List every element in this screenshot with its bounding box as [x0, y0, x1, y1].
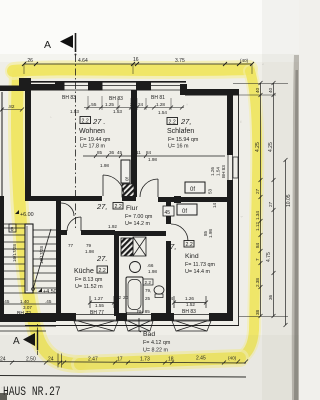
highlighter right stroke [237, 71, 257, 359]
svg-text:1.98: 1.98 [85, 249, 94, 254]
right wall window labels (rotated) [203, 165, 226, 238]
svg-text:Kind: Kind [185, 253, 199, 260]
sheet edge line bottom [0, 376, 246, 378]
svg-text:1.25: 1.25 [105, 102, 114, 107]
bottom window Bad BH85 [125, 315, 153, 332]
svg-text:BH 83: BH 83 [62, 95, 76, 101]
svg-text:1.34: 1.34 [255, 211, 260, 220]
bathtub [126, 277, 143, 313]
right dim chain 1 [259, 81, 263, 318]
svg-text:38: 38 [255, 309, 260, 315]
svg-text:0f: 0f [190, 187, 195, 193]
Bad/Kind wall lower [166, 241, 171, 316]
bottom dimension line [0, 354, 248, 368]
svg-text:36: 36 [109, 150, 115, 155]
stair direction arrow [33, 229, 51, 289]
svg-text:Schlafen: Schlafen [167, 128, 194, 135]
svg-text:1.27: 1.27 [94, 296, 103, 301]
svg-text:16/17/28: 16/17/28 [39, 246, 44, 264]
west wall Kueche/Flur [56, 196, 61, 316]
svg-text:.26: .26 [26, 58, 33, 64]
svg-text:1.26: 1.26 [185, 296, 194, 301]
bottom window Kueche BH77 [74, 315, 118, 332]
box 45 [163, 206, 174, 216]
svg-text:16: 16 [133, 57, 139, 63]
stair dims [2, 303, 57, 305]
svg-text:1.53: 1.53 [113, 109, 122, 114]
svg-text:0f: 0f [182, 209, 187, 215]
Schlafen bottom wall [158, 197, 227, 202]
section line A (dash-dot) [75, 55, 77, 230]
top wall face line [31, 81, 186, 83]
svg-text:1.54: 1.54 [216, 167, 221, 176]
stair handrail [25, 224, 33, 293]
door Wohnen arc [103, 175, 124, 196]
chimney hatched block Wohnen SE [122, 184, 134, 197]
svg-text:U= 17.8 m: U= 17.8 m [80, 144, 106, 150]
svg-text:Küche: Küche [74, 268, 94, 275]
elevation +6.00 [15, 210, 34, 218]
radiator Of Schlafen [185, 182, 205, 193]
svg-text:U= 16 m: U= 16 m [168, 144, 189, 150]
window W2 BH83 [102, 86, 136, 91]
Kueche/Bad wall [114, 231, 119, 316]
svg-text:2.2: 2.2 [145, 280, 152, 285]
highlighter left stroke [17, 74, 80, 364]
svg-text:1.98: 1.98 [100, 163, 109, 168]
svg-text:53: 53 [208, 188, 213, 194]
bathroom sink [130, 262, 141, 273]
right exterior wall [227, 90, 239, 325]
Flur-Kueche wall [61, 230, 67, 235]
svg-text:.45: .45 [45, 299, 52, 304]
right dim connector lines [233, 84, 288, 317]
svg-text:+4.50: +4.50 [43, 289, 57, 295]
svg-text:4.64: 4.64 [78, 58, 88, 64]
svg-text:1.12: 1.12 [255, 222, 260, 231]
room label Kind [165, 241, 216, 276]
box 6 label [9, 224, 16, 232]
window W3 BH81 [151, 86, 180, 91]
room label Wohnen [79, 117, 111, 150]
top dimension line [22, 62, 254, 74]
stair steps left flight [3, 228, 25, 293]
top exterior wall [0, 78, 239, 96]
Bad top wall [115, 231, 166, 236]
WC [154, 286, 164, 294]
radiator Of Kind [177, 204, 197, 215]
bottom window Kind BH83 [172, 315, 211, 332]
svg-text:U= 14.2 m: U= 14.2 m [125, 221, 151, 227]
window W1 BH83 [64, 86, 88, 91]
bathroom shaft X box [133, 237, 146, 256]
svg-text:27,: 27, [165, 242, 176, 251]
right dim chain 3 [284, 158, 288, 327]
svg-text:79,: 79, [145, 288, 151, 293]
svg-text:F= 7.00 qm: F= 7.00 qm [125, 214, 153, 220]
svg-text:.45: .45 [3, 299, 10, 304]
svg-text:(40): (40) [240, 58, 249, 63]
door Schlafen arc [140, 179, 158, 197]
svg-text:2.2: 2.2 [82, 119, 89, 125]
svg-text:1.26: 1.26 [210, 167, 215, 176]
svg-text:2.2: 2.2 [99, 268, 106, 274]
room label Schlafen [167, 117, 199, 150]
svg-text:40: 40 [255, 87, 260, 93]
bottom window dims [90, 295, 196, 316]
svg-text:27,: 27, [96, 202, 107, 211]
stair step labels [12, 244, 44, 264]
regional gray washes [262, 0, 299, 400]
door Kueche arc [67, 217, 81, 231]
room label Kueche [68, 243, 108, 290]
right scan edge band [292, 55, 299, 400]
svg-text:27: 27 [255, 188, 260, 194]
svg-text:27,: 27, [180, 117, 191, 126]
svg-text:2.38: 2.38 [255, 278, 260, 287]
svg-text:1.55: 1.55 [95, 303, 104, 308]
top dimension labels [26, 57, 249, 64]
svg-text:11: 11 [136, 150, 141, 155]
svg-text:79: 79 [86, 243, 92, 248]
svg-text:84: 84 [255, 242, 260, 248]
entry door arc [61, 203, 74, 216]
Bad/Kind wall upper [166, 202, 171, 224]
stairwell left wall [0, 196, 4, 316]
svg-text:Flur: Flur [126, 205, 138, 212]
svg-text:Wohnen: Wohnen [79, 128, 105, 135]
svg-text:3.07: 3.07 [23, 305, 32, 310]
svg-text:BH 72: BH 72 [17, 311, 31, 317]
svg-text:1.98: 1.98 [208, 229, 213, 238]
right dim chain 2 [272, 81, 276, 318]
svg-text:F= 8.13 qm: F= 8.13 qm [75, 277, 103, 283]
svg-text:7: 7 [255, 258, 260, 261]
svg-text:1.40: 1.40 [20, 299, 29, 304]
svg-text:1.53: 1.53 [70, 109, 79, 114]
Bad leader line [139, 318, 141, 332]
svg-text:A: A [44, 39, 51, 51]
section marker A bottom [13, 330, 38, 350]
svg-text:84: 84 [146, 150, 152, 155]
svg-text:BH 85: BH 85 [137, 309, 150, 314]
svg-text:77: 77 [68, 243, 74, 248]
window labels top [0, 95, 184, 115]
svg-text:6: 6 [11, 227, 14, 233]
svg-text:U= 14.4 m: U= 14.4 m [185, 269, 211, 275]
room label Bad [143, 331, 171, 354]
svg-text:U= 11.52 m: U= 11.52 m [75, 284, 103, 290]
bottom exterior wall [25, 313, 233, 321]
radiator Of Wohnen (vertical box) [121, 160, 130, 183]
svg-text:85: 85 [97, 150, 103, 155]
room label Flur [96, 202, 153, 227]
bathroom shaft hatched [121, 238, 133, 256]
Wohnen bottom wall [25, 196, 102, 201]
svg-text:27.: 27. [96, 254, 107, 263]
svg-text:.82: .82 [8, 104, 15, 109]
door Kind arc [171, 224, 188, 241]
stair landing lines [3, 223, 25, 225]
svg-text:BH 77: BH 77 [90, 310, 104, 316]
svg-text:27 .: 27 . [92, 117, 106, 126]
wall Wohnen/Schlafen [131, 90, 137, 161]
window right wall [227, 155, 229, 180]
svg-text:3.75: 3.75 [175, 58, 185, 64]
interior dim chain y157 [83, 154, 225, 158]
svg-text:.55: .55 [90, 102, 97, 107]
left neighbour wall line [1, 92, 3, 196]
svg-text:16/17/28: 16/17/28 [12, 244, 17, 262]
svg-text:2.2: 2.2 [186, 242, 193, 248]
svg-text:24: 24 [168, 296, 174, 301]
svg-text:2.2: 2.2 [115, 204, 122, 210]
svg-text:BH 83: BH 83 [182, 309, 196, 315]
svg-text:1.98: 1.98 [148, 269, 157, 274]
svg-text:.66: .66 [147, 263, 154, 268]
right dim labels [255, 87, 292, 315]
svg-text:2.2: 2.2 [169, 120, 176, 126]
svg-text:45: 45 [117, 150, 123, 155]
svg-text:F= 19.44 qm: F= 19.44 qm [80, 137, 111, 143]
bottom-left corner marks [0, 393, 7, 400]
svg-text:1.54: 1.54 [158, 110, 167, 115]
left exterior wall [25, 81, 31, 196]
Bad labels small [145, 263, 157, 301]
stair steps right flight [33, 230, 56, 288]
svg-text:14: 14 [212, 202, 217, 208]
section marker A top [44, 33, 77, 56]
svg-text:BH 81: BH 81 [151, 95, 165, 101]
svg-text:20: 20 [123, 295, 129, 300]
svg-text:F= 11.73 qm: F= 11.73 qm [185, 262, 216, 268]
svg-text:BH 83: BH 83 [221, 165, 226, 178]
svg-text:1.92: 1.92 [108, 224, 117, 229]
svg-text:24: 24 [138, 102, 144, 107]
highlighter bottom stroke [80, 358, 240, 364]
svg-text:4.25: 4.25 [255, 142, 261, 152]
elevation +4.50 [38, 288, 57, 295]
svg-text:F= 15.94 qm: F= 15.94 qm [168, 137, 199, 143]
svg-text:45: 45 [165, 210, 171, 216]
svg-text:1.28: 1.28 [156, 102, 165, 107]
stair bottom wall [0, 314, 56, 322]
svg-text:25: 25 [145, 296, 151, 301]
svg-text:+6.00: +6.00 [20, 212, 34, 218]
highlighter top stroke [14, 69, 249, 71]
svg-text:1.98: 1.98 [148, 157, 157, 162]
svg-text:22: 22 [116, 295, 122, 300]
